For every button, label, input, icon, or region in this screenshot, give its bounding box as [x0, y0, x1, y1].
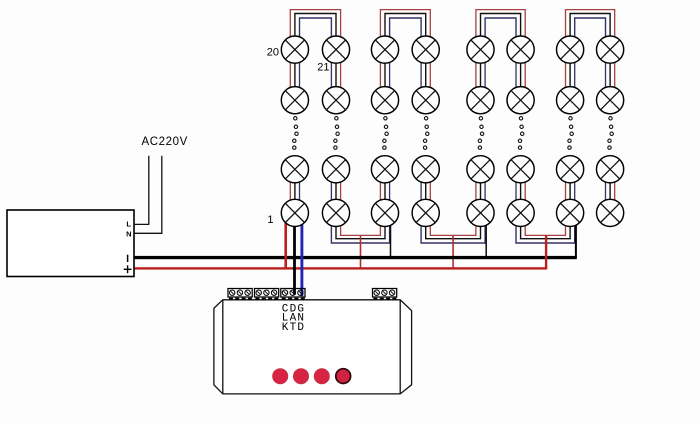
svg-text:1: 1 — [267, 214, 273, 226]
svg-text:AC220V: AC220V — [142, 136, 188, 148]
svg-text:21: 21 — [317, 62, 329, 74]
svg-text:KTD: KTD — [282, 322, 305, 334]
svg-text:N: N — [126, 229, 131, 238]
svg-text:20: 20 — [267, 47, 279, 59]
svg-text:L: L — [126, 219, 131, 228]
